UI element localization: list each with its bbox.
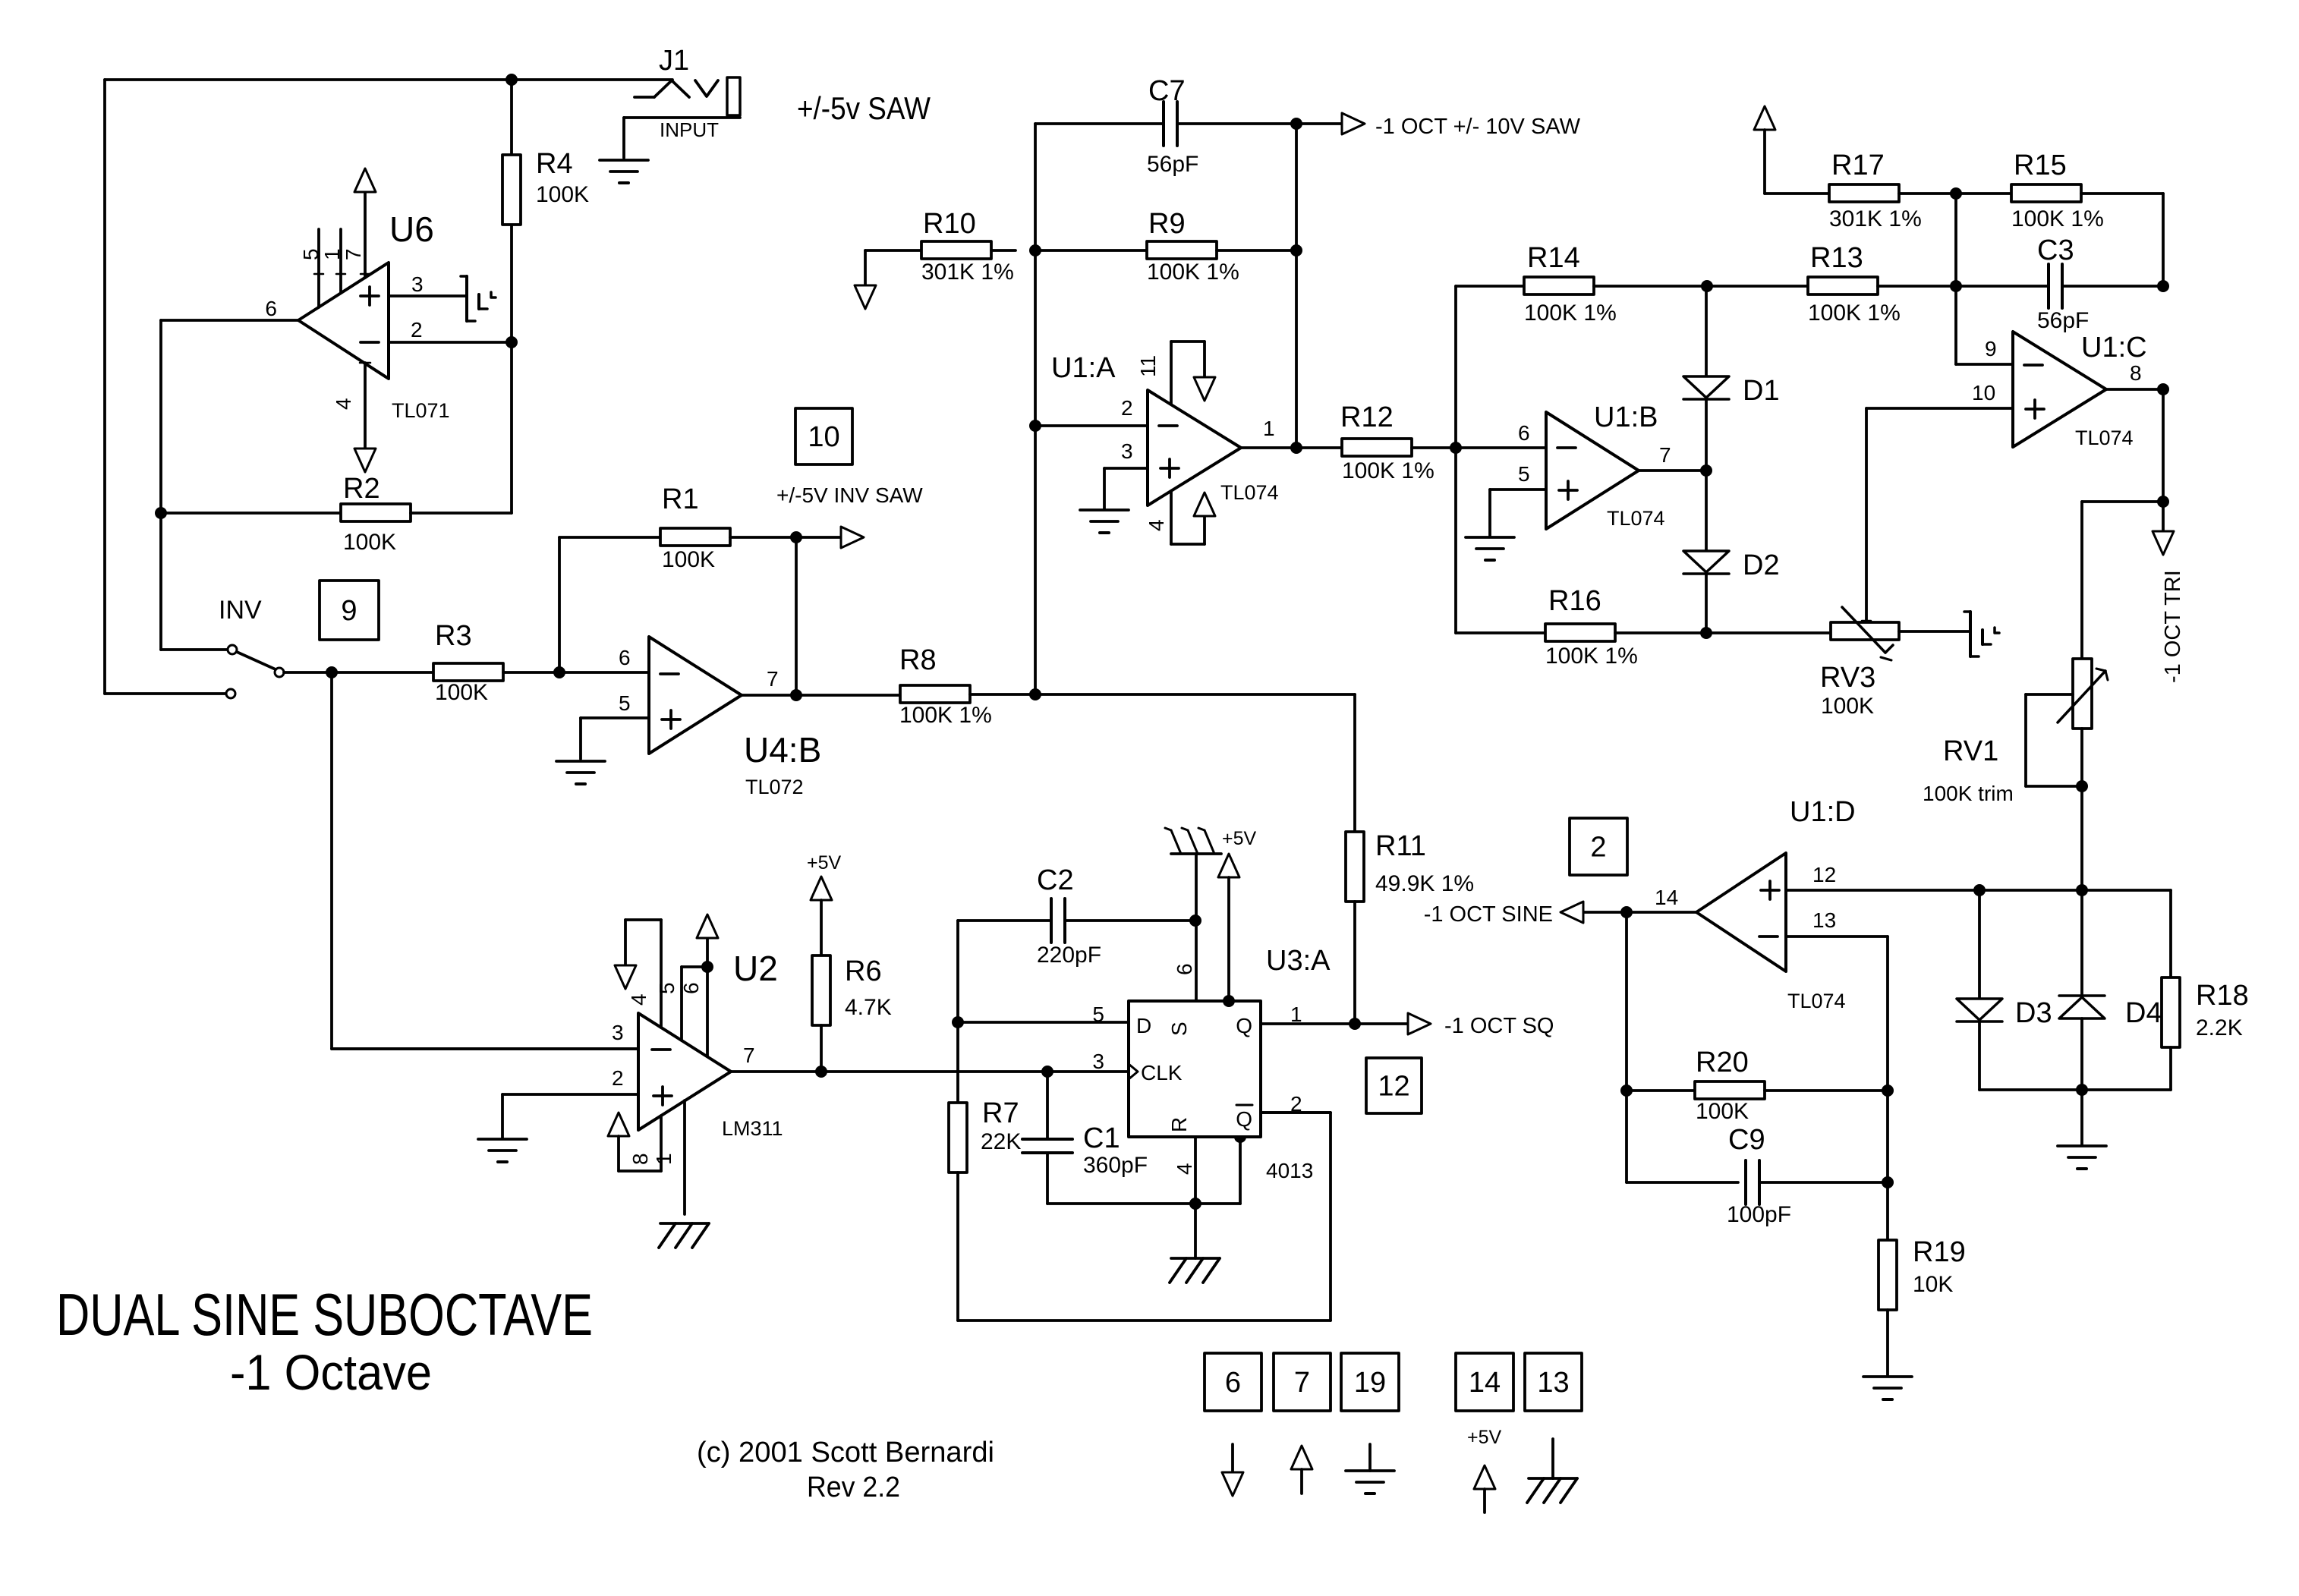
wire RV1 down to pin-12 net — [2080, 786, 2083, 890]
svg-text:R20: R20 — [1696, 1047, 1749, 1078]
power +5V arrow legend — [1467, 1427, 1502, 1513]
svg-text:S: S — [1167, 1022, 1191, 1036]
wire Q pin 1 — [1261, 1022, 1355, 1025]
ground earth under J1 — [600, 160, 648, 183]
resistor R19 — [1879, 1182, 1966, 1375]
svg-text:R12: R12 — [1340, 401, 1394, 433]
node label box 12 — [1366, 1058, 1422, 1113]
node junction limiter bottom — [2076, 1084, 2088, 1096]
wire R20 left down to C9 — [1627, 1091, 1738, 1182]
svg-text:-1 OCT TRI: -1 OCT TRI — [2161, 570, 2185, 683]
svg-text:R: R — [1167, 1117, 1191, 1132]
wire R16 node to RV3 — [1706, 631, 1831, 634]
diode D3 — [1957, 890, 2052, 1090]
svg-text:301K 1%: 301K 1% — [921, 260, 1014, 285]
power +5V arrow into U3:A S — [1218, 828, 1257, 1001]
svg-text:J1: J1 — [659, 45, 689, 77]
svg-text:49.9K 1%: 49.9K 1% — [1375, 871, 1474, 896]
svg-text:13: 13 — [1812, 908, 1836, 932]
U2 pin 4 (-V arrow) — [615, 920, 661, 1028]
svg-text:4: 4 — [1173, 1163, 1196, 1175]
svg-text:INPUT: INPUT — [660, 118, 719, 141]
node junction R12 out / R14 branch — [1450, 442, 1462, 454]
svg-text:1: 1 — [652, 1153, 676, 1165]
svg-text:6: 6 — [679, 982, 703, 994]
svg-text:100K: 100K — [1821, 694, 1874, 719]
node junction U1:B out / D1 / D2 — [1700, 464, 1712, 477]
U6 pin 5 stub — [314, 229, 323, 307]
svg-text:TL071: TL071 — [392, 399, 450, 422]
svg-text:R4: R4 — [536, 148, 573, 180]
node junction C9 right / R19 — [1882, 1176, 1894, 1188]
svg-text:6: 6 — [619, 646, 631, 669]
svg-text:100K: 100K — [536, 182, 589, 207]
svg-text:12: 12 — [1812, 863, 1836, 886]
U6 pin 2 wire — [389, 341, 512, 344]
node label box 10 — [795, 408, 852, 464]
svg-text:+5V: +5V — [1467, 1427, 1502, 1448]
svg-text:+5V: +5V — [1222, 828, 1257, 849]
node junction R-loop on box edge — [1234, 1131, 1246, 1143]
wire R7 bottom to Q-bar — [958, 1113, 1331, 1321]
op-amp U1:D — [1696, 853, 1786, 971]
op-amp U1:B — [1546, 412, 1639, 529]
U1:A labels — [1051, 352, 1279, 531]
svg-text:8: 8 — [628, 1153, 652, 1165]
svg-text:INV: INV — [219, 596, 262, 625]
U6 pin 1 stub — [336, 229, 345, 293]
U1:A pin 11 (-V arrow) — [1171, 342, 1215, 405]
wire switch common to R3 — [284, 671, 332, 674]
svg-text:R1: R1 — [662, 483, 699, 515]
svg-text:100K 1%: 100K 1% — [1545, 644, 1638, 669]
svg-text:D2: D2 — [1743, 549, 1780, 581]
svg-text:R18: R18 — [2196, 980, 2249, 1012]
svg-text:D3: D3 — [2015, 997, 2052, 1029]
svg-text:R13: R13 — [1810, 242, 1863, 274]
U2 pin 3 wire — [332, 1047, 638, 1050]
switch INV (SPDT) — [219, 596, 284, 698]
U1:B pin 5 wire — [1490, 490, 1546, 536]
U1:C pin 10 wire — [1866, 408, 2013, 621]
U3:A pin 6 S — [1167, 854, 1196, 1036]
U6 output pin 6 wire — [161, 320, 298, 513]
revision line — [807, 1472, 900, 1503]
svg-text:-1 OCT SINE: -1 OCT SINE — [1424, 902, 1553, 927]
svg-text:C2: C2 — [1037, 864, 1074, 896]
resistor R4 — [502, 80, 589, 342]
svg-text:5: 5 — [619, 691, 631, 715]
svg-text:R3: R3 — [435, 620, 472, 652]
U6 pin 4 (-V arrow) — [354, 363, 376, 472]
node label box 7 — [1274, 1353, 1331, 1411]
svg-text:100K: 100K — [1696, 1099, 1749, 1124]
trimmer RV1 — [1923, 659, 2108, 805]
battery bias cell at U6 pin 3 — [461, 276, 496, 321]
capacitor C1 — [1022, 1072, 1148, 1204]
svg-text:R9: R9 — [1148, 208, 1186, 240]
svg-text:10: 10 — [1972, 381, 1995, 405]
node junction R14 / R13 / D1 — [1701, 280, 1713, 292]
diode D1 — [1683, 286, 1780, 471]
svg-text:19: 19 — [1354, 1367, 1386, 1399]
U3:A pin 4 R — [1167, 1117, 1196, 1204]
node junction R20 left — [1620, 1084, 1633, 1097]
U2 pin 1 wire — [683, 1100, 686, 1214]
svg-text:301K 1%: 301K 1% — [1829, 206, 1922, 231]
svg-text:56pF: 56pF — [1147, 152, 1198, 177]
svg-text:7: 7 — [743, 1044, 755, 1067]
power NC hatch above S pin — [1165, 828, 1221, 854]
wire node down to U2 pin 3 — [332, 672, 638, 1049]
node junction C7 out — [1290, 118, 1302, 130]
net flag -1 OCT SINE — [1424, 902, 1627, 927]
svg-text:U1:D: U1:D — [1790, 796, 1856, 828]
node junction U1:A pin 2 — [1029, 420, 1041, 432]
resistor R14 — [1456, 242, 1707, 326]
U1:A pin 4 (+V arrow) — [1171, 491, 1215, 544]
svg-text:100K 1%: 100K 1% — [1342, 458, 1435, 483]
power -V arrow under R10 — [855, 285, 876, 309]
wire left border vertical to INV switch throw 2 — [105, 80, 227, 694]
svg-text:4: 4 — [627, 993, 650, 1006]
svg-text:C7: C7 — [1148, 75, 1186, 107]
resistor R3 — [332, 620, 559, 705]
wire TRI node to RV1 top — [2082, 502, 2163, 659]
wire vertical C7 flag to U1:A output — [1295, 124, 1298, 448]
node junction Q / R11 — [1349, 1018, 1361, 1030]
node junction +5V on U3:A top — [1223, 995, 1235, 1007]
svg-text:Rev 2.2: Rev 2.2 — [807, 1472, 900, 1503]
svg-text:R6: R6 — [845, 955, 882, 987]
svg-text:5: 5 — [299, 248, 323, 260]
node label box 6 — [1205, 1353, 1261, 1411]
wire U4:B output — [742, 694, 900, 697]
svg-text:U4:B: U4:B — [744, 730, 821, 770]
ground chassis at U3:A pin 4 — [1170, 1258, 1220, 1283]
capacitor C7 — [1035, 75, 1296, 177]
svg-text:100K: 100K — [662, 547, 715, 572]
U6 labels — [265, 209, 449, 422]
svg-text:100K 1%: 100K 1% — [1147, 260, 1239, 285]
svg-text:CLK: CLK — [1141, 1061, 1183, 1084]
U4:B labels — [619, 646, 821, 798]
wire diode limiter bottom — [1979, 1088, 2171, 1091]
node junction R13 / C3 / U1:C pin 9 — [1950, 280, 1962, 292]
svg-text:R17: R17 — [1831, 150, 1885, 181]
wire R1 node down to U4:B output — [795, 537, 798, 695]
resistor R6 — [812, 955, 892, 1072]
svg-text:R19: R19 — [1913, 1236, 1966, 1268]
svg-text:+/-5v SAW: +/-5v SAW — [797, 90, 931, 126]
diode D2 — [1683, 471, 1780, 633]
node junction D pin / R7 branch — [952, 1016, 964, 1028]
svg-text:(c) 2001 Scott Bernardi: (c) 2001 Scott Bernardi — [697, 1437, 994, 1469]
resistor R17 — [1765, 150, 1956, 231]
svg-text:TL074: TL074 — [1607, 507, 1665, 530]
battery bias cell at RV3 — [1964, 612, 1999, 656]
wire U6 out down to switch throw 1 — [161, 513, 227, 650]
resistor R12 — [1340, 401, 1546, 483]
svg-text:RV3: RV3 — [1820, 662, 1875, 694]
comparator U2 — [638, 1013, 731, 1130]
svg-text:R10: R10 — [923, 208, 976, 240]
ground earth at U1:A pin 3 — [1080, 510, 1129, 533]
node label box 13 — [1525, 1353, 1582, 1411]
svg-text:+5V: +5V — [807, 852, 842, 874]
wire vertical R13/C3 to U1:C pin 9 — [1956, 194, 2013, 364]
node junction pin12 / D3 — [1973, 884, 1986, 896]
svg-text:100K 1%: 100K 1% — [1524, 301, 1617, 326]
svg-text:Q: Q — [1236, 1107, 1252, 1131]
svg-text:6: 6 — [1173, 963, 1196, 975]
node junction R3 / R1 / U4:B pin 6 — [553, 666, 565, 678]
flip-flop U3:A (4013) — [1129, 1001, 1261, 1137]
capacitor C3 — [1956, 235, 2163, 333]
U1:B labels — [1518, 401, 1671, 530]
svg-text:Q: Q — [1236, 1014, 1252, 1037]
net flag +/-5V INV SAW — [776, 483, 923, 548]
svg-text:U1:B: U1:B — [1594, 401, 1658, 433]
ground earth at U2 pin 2 — [478, 1139, 527, 1162]
svg-text:22K: 22K — [981, 1129, 1021, 1154]
svg-text:C9: C9 — [1728, 1124, 1765, 1156]
svg-text:-1 OCT +/- 10V SAW: -1 OCT +/- 10V SAW — [1375, 115, 1581, 139]
svg-text:13: 13 — [1537, 1367, 1569, 1399]
svg-text:TL072: TL072 — [745, 776, 804, 798]
wire vertical C7/R9/U1:A pin2 net — [1034, 124, 1037, 694]
ground earth under limiter — [2058, 1146, 2106, 1169]
resistor R11 — [1346, 830, 1474, 1024]
svg-text:6: 6 — [1518, 421, 1530, 445]
svg-text:5: 5 — [655, 982, 679, 994]
U1:C labels — [1972, 332, 2147, 449]
node junction R1 out / U4:B out — [790, 531, 802, 543]
wire U1:A output — [1241, 446, 1342, 449]
U6 power pin 7 (+V arrow) — [354, 168, 376, 278]
power +V arrow legend — [1291, 1446, 1312, 1494]
svg-text:100K 1%: 100K 1% — [1808, 301, 1901, 326]
potentiometer RV3 — [1820, 607, 1899, 719]
U3:A labels — [1266, 945, 1331, 1182]
svg-text:2.2K: 2.2K — [2196, 1015, 2243, 1040]
node junction R4 / U6 pin2 — [505, 336, 518, 348]
node junction R16 / D2 / RV3 — [1700, 627, 1712, 639]
svg-text:12: 12 — [1378, 1071, 1409, 1103]
svg-text:U2: U2 — [733, 949, 778, 988]
U3:A pin 5 D — [1092, 1003, 1151, 1037]
copyright line — [697, 1437, 994, 1469]
net flag -1 OCT +/- 10V SAW — [1296, 113, 1581, 139]
svg-text:100K: 100K — [343, 530, 396, 555]
svg-text:U3:A: U3:A — [1266, 945, 1331, 977]
net flag -1 OCT SQ — [1355, 1013, 1554, 1038]
wire pin13 node down to R19 — [1886, 1091, 1889, 1182]
wire U1:B output — [1639, 469, 1706, 472]
node junction R17 / R15 — [1950, 187, 1962, 200]
svg-text:8: 8 — [2130, 361, 2142, 385]
node junction top wire / R4 — [505, 74, 518, 86]
U3:A pin 1 Q — [1236, 1003, 1302, 1037]
ground earth under R19 — [1863, 1377, 1912, 1399]
svg-text:100pF: 100pF — [1727, 1202, 1791, 1227]
U4:B pin 6 wire — [559, 671, 649, 674]
svg-text:2: 2 — [1590, 832, 1606, 864]
svg-text:220pF: 220pF — [1037, 943, 1101, 968]
svg-text:U1:C: U1:C — [2081, 332, 2147, 364]
node label box 14 — [1456, 1353, 1513, 1411]
resistor R7 — [949, 1097, 1021, 1321]
U6 pin 3 wire — [389, 294, 465, 297]
U1:D output pin 14 wire — [1627, 911, 1696, 914]
node junction U1:A out / C7 vertical — [1290, 442, 1302, 454]
U2 labels — [612, 949, 783, 1165]
net label +/-5v SAW — [797, 90, 931, 126]
wire R4 node down to R2 right — [510, 342, 513, 513]
node junction TRI / RV1 — [2157, 496, 2169, 508]
node junction R2 left / U6 feedback — [155, 507, 167, 519]
node junction R pin / ground — [1189, 1198, 1201, 1210]
op-amp U6 — [298, 263, 389, 379]
svg-text:2: 2 — [612, 1066, 624, 1090]
svg-text:7: 7 — [767, 667, 779, 691]
svg-text:R15: R15 — [2014, 150, 2067, 181]
svg-text:100K trim: 100K trim — [1923, 782, 2014, 805]
svg-text:3: 3 — [612, 1021, 624, 1044]
wire limiter bottom to ground — [2080, 1090, 2083, 1144]
svg-text:4: 4 — [1145, 519, 1168, 531]
U3:A pin 3 CLK — [1092, 1050, 1182, 1084]
svg-text:TL074: TL074 — [1787, 990, 1846, 1012]
subtitle -1 Octave — [230, 1344, 432, 1400]
U2 pin 8 (+V arrow) — [608, 1113, 661, 1171]
U4:B pin 5 wire — [581, 718, 649, 759]
svg-text:R8: R8 — [899, 644, 937, 676]
node junction C3 right — [2157, 280, 2169, 292]
U2 pin 2 wire — [502, 1094, 638, 1138]
diode D4 — [2059, 890, 2162, 1090]
title DUAL SINE SUBOCTAVE — [56, 1281, 593, 1348]
svg-text:14: 14 — [1469, 1367, 1501, 1399]
svg-text:R14: R14 — [1527, 242, 1580, 274]
svg-text:1: 1 — [320, 248, 344, 260]
wire sine node down to R20 — [1625, 912, 1628, 1091]
svg-text:R2: R2 — [343, 473, 380, 505]
svg-text:5: 5 — [1518, 462, 1530, 486]
svg-text:LM311: LM311 — [722, 1117, 783, 1140]
svg-text:7: 7 — [342, 248, 365, 260]
svg-text:7: 7 — [1659, 443, 1671, 467]
svg-text:10K: 10K — [1913, 1272, 1953, 1297]
U1:D pin 13 wire — [1786, 937, 1888, 1091]
ground chassis legend — [1527, 1439, 1577, 1503]
svg-text:DUAL SINE SUBOCTAVE: DUAL SINE SUBOCTAVE — [56, 1281, 593, 1348]
node junction pin12 / D4 / RV1 — [2076, 884, 2088, 896]
node junction R8 / C7-R9 vertical — [1029, 688, 1041, 700]
svg-text:2: 2 — [411, 318, 423, 342]
svg-text:100K 1%: 100K 1% — [2011, 206, 2104, 231]
svg-text:-1 OCT SQ: -1 OCT SQ — [1444, 1014, 1554, 1038]
svg-text:14: 14 — [1655, 886, 1678, 909]
svg-text:10: 10 — [808, 421, 839, 453]
ground earth legend — [1346, 1444, 1394, 1494]
svg-text:4: 4 — [332, 398, 355, 410]
svg-text:4.7K: 4.7K — [845, 995, 892, 1020]
node junction U4:B out / R1 branch — [790, 689, 802, 701]
svg-text:3: 3 — [411, 272, 424, 296]
svg-text:7: 7 — [1294, 1367, 1310, 1399]
svg-text:U1:A: U1:A — [1051, 352, 1116, 384]
wire R7 branch vertical — [956, 1022, 959, 1103]
node junction R9 right / C7 vertical — [1290, 244, 1302, 257]
wire Q-bar pin 2 — [1261, 1111, 1331, 1114]
resistor R20 — [1627, 1047, 1888, 1124]
svg-text:100K 1%: 100K 1% — [899, 703, 992, 728]
node junction switch common / R3 / U2 branch — [326, 666, 338, 678]
wire R14 branch vertical — [1456, 286, 1545, 633]
resistor R16 — [1545, 585, 1706, 669]
wire R8 node to R11 corner — [1035, 694, 1355, 832]
svg-text:C3: C3 — [2037, 235, 2074, 266]
svg-text:2: 2 — [1121, 396, 1133, 420]
svg-text:R7: R7 — [982, 1097, 1019, 1129]
svg-text:11: 11 — [1136, 355, 1160, 377]
ground chassis at U2 pin 1 — [659, 1223, 709, 1248]
wire D pin — [958, 1021, 1129, 1024]
U1:D labels — [1655, 796, 1856, 1012]
resistor R10 — [865, 208, 1016, 285]
ground earth at U4:B pin 5 — [556, 761, 605, 784]
resistor R9 — [1035, 208, 1296, 285]
svg-text:R16: R16 — [1548, 585, 1601, 617]
resistor R8 — [899, 644, 1035, 728]
svg-text:3: 3 — [1121, 439, 1133, 463]
resistor R13 — [1707, 242, 1956, 326]
connector J1 (input jack) — [624, 45, 740, 158]
node label box 19 — [1341, 1353, 1399, 1411]
node junction U2 out / R6 — [815, 1066, 827, 1078]
svg-text:100K: 100K — [435, 680, 488, 705]
wire U1:C out down to TRI node — [2162, 389, 2165, 502]
svg-text:6: 6 — [265, 297, 277, 320]
node junction sine out — [1620, 906, 1633, 918]
node label box 2 — [1570, 818, 1627, 875]
node junction RV1 wiper/bottom — [2076, 780, 2088, 792]
svg-text:-1 Octave: -1 Octave — [230, 1344, 432, 1400]
svg-text:U6: U6 — [389, 209, 434, 249]
wire R15 corner down — [2162, 194, 2165, 286]
node junction C2 / S pin — [1189, 914, 1201, 927]
op-amp U4:B — [649, 637, 742, 754]
wire top net from INV switch to J1 tip — [105, 78, 672, 81]
resistor R15 — [1956, 150, 2163, 231]
svg-text:D4: D4 — [2125, 997, 2162, 1029]
svg-text:6: 6 — [1225, 1367, 1241, 1399]
svg-text:TL074: TL074 — [2075, 427, 2134, 449]
wire RV3 to battery — [1899, 630, 1969, 633]
node label box 9 — [320, 581, 379, 640]
op-amp U1:A — [1148, 390, 1241, 505]
power +V arrow at R17 — [1754, 106, 1775, 194]
svg-text:5: 5 — [1092, 1003, 1104, 1026]
wire U1:C output — [2106, 388, 2163, 391]
svg-text:RV1: RV1 — [1943, 735, 1998, 767]
U3:A pin 2 Q-bar — [1236, 1092, 1302, 1131]
svg-text:C1: C1 — [1083, 1122, 1120, 1154]
resistor R1 — [559, 483, 796, 672]
svg-text:D: D — [1136, 1014, 1151, 1037]
svg-text:9: 9 — [341, 595, 357, 627]
